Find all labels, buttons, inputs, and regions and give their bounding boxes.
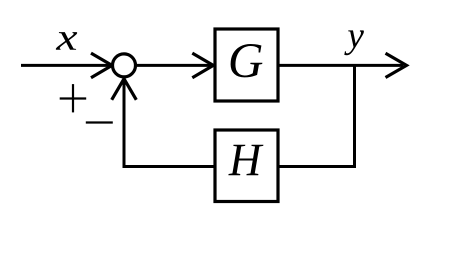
plus sign (60, 84, 86, 112)
node: label x (56, 32, 77, 50)
wire: input line (21, 64, 110, 67)
wire: summing junction to G (137, 64, 211, 67)
wire: branch down from output and left to H (279, 65, 355, 166)
arrowhead into G (192, 53, 213, 78)
arrowhead up into summing junction (112, 79, 137, 100)
block G (215, 29, 278, 101)
label G (231, 44, 263, 77)
wire: H to below summing junction and up (124, 80, 214, 167)
arrowhead into summing junction (91, 53, 112, 78)
summing junction circle (113, 54, 136, 77)
node: label y (344, 30, 364, 55)
minus sign (86, 121, 113, 123)
label H (228, 145, 263, 175)
arrowhead output (386, 53, 407, 77)
wire: output line (279, 64, 403, 67)
block H (215, 130, 278, 202)
